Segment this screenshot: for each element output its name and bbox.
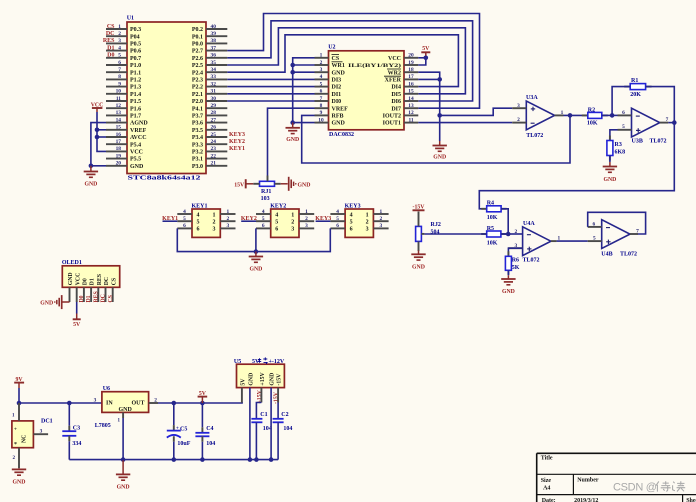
wire R6 to ground (507, 270, 509, 275)
svg-text:KEY2: KEY2 (241, 216, 257, 222)
svg-text:+: + (14, 426, 17, 432)
wire P2.1 to DI1 (227, 93, 314, 95)
svg-text:DC: DC (104, 277, 110, 285)
wire +15V pin to C1 (260, 388, 262, 403)
svg-text:C1: C1 (260, 412, 267, 418)
ground GND DC1 (18, 468, 20, 469)
svg-text:2: 2 (226, 216, 229, 222)
resistor R6 5K (505, 251, 519, 274)
junction C1 bottom (254, 457, 259, 462)
svg-text:RES: RES (93, 291, 99, 302)
svg-text:6K8: 6K8 (615, 149, 626, 155)
svg-text:+-12V: +-12V (269, 359, 285, 365)
svg-text:GND: GND (130, 164, 144, 170)
svg-text:P3.0: P3.0 (192, 164, 203, 170)
svg-text:GND: GND (412, 264, 425, 270)
svg-text:Number: Number (577, 478, 599, 484)
svg-text:U5: U5 (234, 359, 241, 365)
svg-text:18: 18 (408, 67, 414, 73)
connector DC1 (12, 403, 53, 468)
svg-text:GND: GND (270, 373, 276, 386)
svg-text:38: 38 (211, 38, 217, 44)
svg-text:XFER: XFER (385, 78, 402, 84)
svg-text:KEY3: KEY3 (315, 216, 331, 222)
svg-text:29: 29 (211, 103, 217, 109)
wire VCC pin20 to 5V (418, 57, 426, 59)
svg-text:2: 2 (517, 117, 520, 123)
svg-text:11: 11 (116, 96, 121, 102)
svg-text:104: 104 (206, 441, 215, 447)
svg-text:DI3: DI3 (332, 78, 342, 84)
svg-text:P0.3: P0.3 (130, 27, 141, 33)
svg-text:P1.5: P1.5 (130, 99, 141, 105)
svg-text:4: 4 (118, 45, 121, 51)
wire U3B output to R4 (479, 123, 674, 209)
svg-text:P2.6: P2.6 (192, 56, 203, 62)
svg-text:1: 1 (305, 209, 308, 215)
wire U3B output (668, 122, 674, 124)
svg-text:10uF: 10uF (177, 441, 190, 447)
wire node to U4A pin2 (508, 233, 522, 235)
svg-text:5V: 5V (73, 322, 81, 328)
ground GND keys (255, 252, 257, 257)
svg-text:D1: D1 (90, 278, 96, 285)
svg-text:23: 23 (211, 146, 217, 152)
power 5V rail (198, 391, 208, 403)
svg-text:P04: P04 (130, 34, 140, 40)
svg-text:DI7: DI7 (391, 106, 401, 112)
wire R4 to node (501, 209, 508, 234)
svg-text:DI2: DI2 (332, 85, 342, 91)
svg-text:AGND: AGND (130, 121, 148, 127)
svg-text:5: 5 (622, 124, 625, 130)
svg-text:VCC: VCC (130, 150, 143, 156)
svg-text:P3.4: P3.4 (192, 135, 203, 141)
svg-text:1: 1 (561, 110, 564, 116)
svg-text:DI6: DI6 (391, 99, 401, 105)
junction C5 bottom (172, 457, 177, 462)
svg-text:2: 2 (305, 216, 308, 222)
svg-text:3: 3 (517, 103, 520, 109)
svg-text:1: 1 (213, 212, 216, 218)
svg-text:R3: R3 (615, 142, 622, 148)
svg-text:3: 3 (213, 227, 216, 233)
svg-text:P2.5: P2.5 (192, 63, 203, 69)
svg-text:10K: 10K (487, 240, 498, 246)
svg-text:P3.3: P3.3 (192, 142, 203, 148)
svg-text:DAC0832: DAC0832 (329, 132, 354, 138)
svg-text:U6: U6 (103, 386, 110, 392)
svg-text:20: 20 (408, 53, 414, 59)
svg-text:P1.4: P1.4 (130, 92, 141, 98)
svg-text:AVCC: AVCC (130, 135, 147, 141)
op-amp U4B (588, 220, 639, 258)
svg-text:1: 1 (226, 209, 229, 215)
svg-text:4: 4 (262, 209, 265, 215)
svg-text:WR2: WR2 (388, 70, 401, 76)
svg-text:GND: GND (332, 70, 346, 76)
wire R3 to ground (609, 156, 611, 163)
svg-text:VCC: VCC (388, 56, 401, 62)
wire P2.3 to DI3 (227, 78, 314, 80)
svg-text:334: 334 (72, 441, 81, 447)
svg-text:CSDN @: CSDN @ (613, 482, 657, 494)
svg-text:GND: GND (249, 267, 262, 273)
svg-text:25: 25 (211, 132, 217, 138)
junction U1 GND (89, 164, 94, 169)
svg-text:3: 3 (226, 223, 229, 229)
svg-text:U1: U1 (127, 16, 134, 22)
svg-text:27: 27 (211, 117, 217, 123)
svg-text:+: + (176, 427, 179, 432)
resistor R1 20K (624, 78, 651, 98)
svg-text:6: 6 (183, 223, 186, 229)
svg-text:8: 8 (118, 74, 121, 80)
junction XFER (437, 77, 442, 82)
ground GND OLED (40, 295, 61, 309)
svg-text:Sheet: Sheet (686, 498, 696, 502)
power 5V OLED (73, 314, 81, 329)
wire OLED GND (62, 301, 69, 303)
svg-text:5V: 5V (422, 46, 430, 52)
svg-text:IN: IN (106, 401, 113, 407)
svg-text:RES: RES (97, 274, 103, 285)
svg-text:Date:: Date: (542, 498, 556, 502)
svg-text:1: 1 (380, 209, 383, 215)
svg-text:3: 3 (118, 38, 121, 44)
svg-text:1: 1 (366, 212, 369, 218)
svg-text:R4: R4 (487, 201, 494, 207)
wire R5 to node (501, 233, 508, 235)
svg-text:U4A: U4A (523, 221, 535, 227)
ground GND U2 left (292, 123, 294, 128)
ground GND RJ1 (281, 177, 311, 191)
svg-text:GND: GND (332, 121, 346, 127)
svg-text:VCC: VCC (75, 273, 81, 286)
wire U4A output to U4B pin5 (557, 240, 588, 242)
svg-text:D0: D0 (83, 278, 89, 285)
svg-text:P1.6: P1.6 (130, 106, 141, 112)
svg-text:DC: DC (101, 294, 107, 302)
svg-text:2: 2 (213, 220, 216, 226)
svg-text:VREF: VREF (130, 128, 147, 134)
wire P2.5 to DI5 (227, 28, 465, 94)
svg-text:2: 2 (291, 220, 294, 226)
svg-text:P1.2: P1.2 (130, 78, 141, 84)
svg-text:6: 6 (320, 89, 323, 95)
svg-text:15V: 15V (234, 182, 245, 188)
svg-text:R1: R1 (631, 78, 638, 84)
resistor R4 10K (481, 201, 506, 222)
svg-text:C5: C5 (180, 427, 187, 433)
svg-text:*: * (14, 442, 17, 448)
svg-text:5: 5 (262, 216, 265, 222)
svg-text:+15V: +15V (260, 371, 266, 385)
svg-text:GND: GND (249, 373, 255, 386)
svg-text:OLED1: OLED1 (62, 260, 82, 266)
svg-text:2: 2 (118, 31, 121, 37)
svg-text:3: 3 (291, 227, 294, 233)
svg-text:DI0: DI0 (332, 99, 342, 105)
svg-text:4: 4 (275, 212, 278, 218)
power 15V (234, 179, 253, 188)
wire P2.0 to DI0 (227, 100, 314, 102)
svg-text:35: 35 (211, 60, 217, 66)
resistor R5 10K (481, 226, 506, 247)
svg-text:DI5: DI5 (391, 92, 401, 98)
svg-text:P0.0: P0.0 (192, 42, 203, 48)
capacitor C3 334 (62, 403, 81, 460)
svg-text:28: 28 (211, 110, 217, 116)
svg-text:CS: CS (107, 24, 115, 30)
svg-text:KEY1: KEY1 (162, 216, 178, 222)
svg-text:OUT: OUT (131, 401, 144, 407)
svg-text:5: 5 (118, 53, 121, 59)
wire -15V pin to C2 (277, 388, 279, 403)
wire U6 GND (122, 418, 124, 460)
svg-text:P2.1: P2.1 (192, 92, 203, 98)
net label KEY1 (163, 220, 178, 222)
wire AGND pin14 to GND (91, 123, 106, 166)
svg-text:10: 10 (318, 117, 324, 123)
junction R2 R1 node (610, 113, 615, 118)
svg-text:GND: GND (603, 177, 616, 183)
wire 9V to rail (18, 388, 20, 403)
svg-text:4: 4 (320, 74, 323, 80)
wire 9V rail to U6 (19, 402, 102, 404)
svg-text:Size: Size (541, 478, 552, 484)
resistor R2 10K (582, 107, 608, 126)
wire CS WR1 GND to ground (293, 58, 315, 123)
op-amp U3B (618, 108, 669, 144)
svg-text:103: 103 (261, 196, 270, 202)
svg-text:KEY2: KEY2 (229, 139, 245, 145)
svg-text:RJ1: RJ1 (261, 189, 271, 195)
power VCC (91, 102, 104, 112)
capacitor C5 10uF (167, 403, 191, 460)
svg-text:7: 7 (118, 67, 121, 73)
svg-text:20K: 20K (630, 92, 641, 98)
svg-text:22: 22 (211, 153, 217, 159)
svg-text:P0.7: P0.7 (130, 56, 141, 62)
svg-text:P0.6: P0.6 (130, 49, 141, 55)
svg-text:GND: GND (84, 182, 97, 188)
svg-text:P3.2: P3.2 (192, 150, 203, 156)
wire U5 5V pin (241, 388, 243, 403)
resistor R3 6K8 (607, 136, 625, 161)
junction GND pin10 (290, 120, 295, 125)
junction U6 GND rail (121, 457, 126, 462)
svg-text:P3.7: P3.7 (192, 114, 203, 120)
svg-text:P2.7: P2.7 (192, 49, 203, 55)
svg-text:P1.1: P1.1 (130, 70, 141, 76)
svg-text:GND: GND (286, 137, 299, 143)
svg-text:GND: GND (433, 155, 446, 161)
wire OLED VCC to 5V (76, 302, 78, 314)
svg-text:3: 3 (320, 67, 323, 73)
svg-text:IOUT1: IOUT1 (383, 121, 401, 127)
svg-text:P1.7: P1.7 (130, 114, 141, 120)
junction 5V U2 (424, 56, 429, 61)
svg-text:39: 39 (211, 31, 217, 37)
svg-text:13: 13 (116, 110, 122, 116)
svg-text:12: 12 (408, 110, 414, 116)
wire U4A pin3 to R6 (508, 248, 522, 256)
junction U5 GND2 (248, 457, 253, 462)
wire RJ2 to R5 (424, 233, 486, 235)
wire ground rail bottom (69, 459, 278, 461)
svg-text:DC1: DC1 (41, 419, 53, 425)
svg-text:5: 5 (197, 220, 200, 226)
wire U5 GND pin4 (270, 388, 272, 460)
title block (537, 453, 696, 502)
junction VCC pin15 (95, 128, 100, 133)
wire WR2 XFER IOUT2 to ground (418, 72, 439, 141)
svg-text:504: 504 (431, 229, 440, 235)
svg-text:C2: C2 (281, 412, 288, 418)
svg-text:CS: CS (108, 295, 114, 302)
svg-text:U4B: U4B (601, 251, 612, 257)
svg-text:CS: CS (332, 56, 340, 62)
svg-text:TL072: TL072 (620, 251, 637, 257)
svg-text:P2.2: P2.2 (192, 85, 203, 91)
junction 9V DC1 (17, 401, 22, 406)
svg-text:16: 16 (116, 132, 122, 138)
svg-text:3: 3 (94, 397, 97, 403)
svg-text:TL072: TL072 (650, 138, 667, 144)
svg-text:20: 20 (116, 161, 122, 167)
svg-text:D1: D1 (86, 295, 92, 302)
svg-text:16: 16 (408, 81, 414, 87)
wire U3A output to R2 (564, 114, 588, 116)
svg-text:P2.3: P2.3 (192, 78, 203, 84)
regulator U6 L7805 (94, 386, 158, 429)
svg-text:RFB: RFB (332, 114, 344, 120)
svg-text:6: 6 (622, 110, 625, 116)
svg-text:10K: 10K (487, 215, 498, 221)
junction U3A output (568, 113, 573, 118)
svg-text:D0: D0 (79, 295, 85, 302)
svg-text:GND: GND (117, 484, 130, 490)
junction GND pin3 (290, 70, 295, 75)
ground GND R6 (507, 275, 509, 279)
svg-text:D0: D0 (107, 53, 114, 59)
svg-text:4: 4 (197, 212, 200, 218)
svg-text:P5.5: P5.5 (130, 157, 141, 163)
op-amp U3A (512, 95, 563, 139)
svg-text:9: 9 (320, 110, 323, 116)
svg-text:GND: GND (502, 289, 515, 295)
ground GND U1 (90, 166, 92, 172)
svg-text:KEY3: KEY3 (345, 203, 361, 209)
svg-text:19: 19 (408, 60, 414, 66)
svg-text:U2: U2 (328, 45, 335, 51)
svg-text:-15V: -15V (277, 373, 283, 386)
svg-text:15: 15 (116, 125, 122, 131)
svg-text:P1.0: P1.0 (130, 63, 141, 69)
svg-text:32: 32 (211, 81, 217, 87)
IC U2 DAC0832 (315, 45, 419, 139)
svg-text:P3.5: P3.5 (192, 128, 203, 134)
svg-text:ILE(BY1/BY2): ILE(BY1/BY2) (348, 62, 401, 69)
svg-text:14: 14 (116, 117, 122, 123)
wire VCC to U1 pins 15 16 18 (97, 112, 106, 151)
junction VCC pin16 (95, 135, 100, 140)
net label KEY3 (316, 220, 331, 222)
wire P2.2 to DI2 (227, 86, 314, 88)
svg-text:6: 6 (592, 221, 595, 227)
wire P2.6 to DI6 (227, 21, 472, 101)
svg-text:11: 11 (408, 117, 413, 123)
ground GND U2 right (439, 141, 441, 146)
svg-text:C4: C4 (206, 426, 213, 432)
wire IOUT2 to U3A pin3 (440, 108, 513, 115)
op-amp U4A (508, 221, 560, 256)
svg-text:4: 4 (336, 209, 339, 215)
junction C4 bottom (200, 457, 205, 462)
svg-text:RJ2: RJ2 (431, 222, 441, 228)
junction KEY ground (254, 249, 259, 254)
svg-text:3: 3 (40, 428, 43, 434)
svg-text:31: 31 (211, 89, 217, 95)
wire RFB feedback (302, 115, 570, 163)
svg-text:5: 5 (350, 220, 353, 226)
svg-text:104: 104 (283, 426, 292, 432)
IC U1 STC8a8k64s4a12 (106, 16, 227, 182)
connector OLED1 (62, 260, 120, 302)
svg-text:GND: GND (298, 182, 311, 188)
svg-text:KEY2: KEY2 (270, 203, 286, 209)
potentiometer RJ1 103 (253, 176, 280, 202)
wire U4B feedback loop (588, 212, 646, 234)
svg-text:TL072: TL072 (526, 133, 543, 139)
svg-text:5: 5 (336, 216, 339, 222)
svg-text:2: 2 (366, 220, 369, 226)
ground GND U6 (122, 460, 124, 475)
svg-text:P5.4: P5.4 (130, 142, 141, 148)
module U5 5V to 12V (234, 357, 285, 387)
svg-text:8: 8 (320, 103, 323, 109)
svg-text:DI1: DI1 (332, 92, 342, 98)
svg-text:17: 17 (116, 139, 122, 145)
svg-text:4: 4 (183, 209, 186, 215)
svg-text:P0.5: P0.5 (130, 42, 141, 48)
svg-text:P0.1: P0.1 (192, 34, 203, 40)
svg-text:R6: R6 (512, 257, 519, 263)
svg-text:GND: GND (119, 407, 133, 413)
svg-text:R5: R5 (487, 226, 494, 232)
svg-text:5: 5 (320, 81, 323, 87)
svg-text:CS: CS (111, 278, 117, 285)
svg-text:3: 3 (380, 223, 383, 229)
svg-text:6: 6 (275, 227, 278, 233)
capacitor C4 104 (195, 403, 215, 460)
svg-text:6: 6 (197, 227, 200, 233)
svg-text:2019/3/12: 2019/3/12 (574, 498, 598, 502)
svg-text:L7805: L7805 (95, 423, 111, 429)
svg-text:VREF: VREF (332, 106, 349, 112)
net label KEY2 (241, 220, 256, 222)
svg-text:10K: 10K (587, 121, 598, 127)
svg-text:5K: 5K (512, 265, 520, 271)
svg-text:STC8a8k64s4a12: STC8a8k64s4a12 (128, 176, 201, 182)
svg-text:15: 15 (408, 89, 414, 95)
svg-text:1: 1 (291, 212, 294, 218)
junction WR1 (290, 63, 295, 68)
svg-text:NC: NC (22, 435, 28, 443)
svg-text:KEY1: KEY1 (229, 146, 245, 152)
svg-text:IOUT2: IOUT2 (383, 114, 401, 120)
